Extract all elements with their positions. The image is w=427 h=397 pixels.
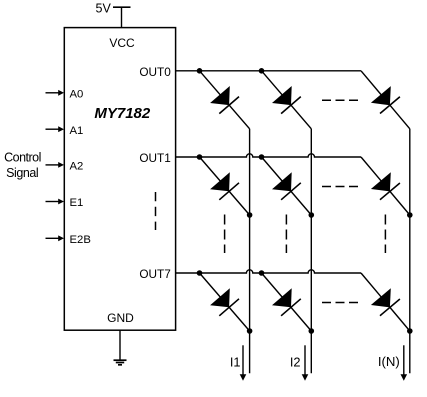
junction col N row OUT7 diode join xyxy=(407,328,413,334)
ellipsis dashes column 2 rows continuation xyxy=(285,215,287,254)
junction row OUT7 tap col 2 xyxy=(259,270,265,276)
svg-text:I(N): I(N) xyxy=(378,354,400,369)
svg-text:Control: Control xyxy=(4,150,41,164)
svg-text:OUT7: OUT7 xyxy=(139,267,170,281)
svg-text:GND: GND xyxy=(107,311,134,325)
svg-text:I1: I1 xyxy=(230,354,241,369)
wire column IN vertical xyxy=(409,129,411,373)
input pin arrow E2B xyxy=(46,235,65,241)
input pin arrow A1 xyxy=(46,126,65,132)
junction col 1 row OUT7 diode join xyxy=(247,328,253,334)
junction col 2 row OUT1 diode join xyxy=(309,212,315,218)
diode D01 (row OUT0, col 1) xyxy=(200,71,250,129)
wire 5V to VCC pin xyxy=(121,7,123,27)
svg-text:Signal: Signal xyxy=(6,166,38,180)
wire OUT7 row line xyxy=(176,270,361,273)
diode D0N (row OUT0, col N) xyxy=(361,71,410,129)
svg-text:E1: E1 xyxy=(70,197,84,209)
IC U1 MY7182 body xyxy=(64,28,175,331)
svg-text:A0: A0 xyxy=(70,89,84,101)
wire GND pin to ground xyxy=(119,330,121,360)
junction row OUT1 tap col 1 xyxy=(197,154,203,160)
current arrow I2 xyxy=(302,345,309,381)
wire column I1 vertical xyxy=(249,129,251,373)
ellipsis dashes row OUT0 columns continuation xyxy=(322,99,358,101)
current arrow I1 xyxy=(240,345,247,381)
svg-text:I2: I2 xyxy=(290,354,301,369)
input pin arrow A0 xyxy=(46,90,65,96)
svg-text:VCC: VCC xyxy=(109,36,135,50)
wire OUT1 row line xyxy=(176,154,361,157)
svg-text:A1: A1 xyxy=(70,125,84,137)
diode D72 (row OUT7, col 2) xyxy=(262,273,312,331)
svg-text:A2: A2 xyxy=(70,161,84,173)
wire OUT0 row line xyxy=(176,70,361,72)
junction row OUT0 tap col 1 xyxy=(197,68,203,74)
svg-text:OUT0: OUT0 xyxy=(139,65,171,79)
svg-text:E2B: E2B xyxy=(70,234,91,246)
ground symbol xyxy=(114,360,127,365)
junction row OUT0 tap col 2 xyxy=(259,68,265,74)
diode D12 (row OUT1, col 2) xyxy=(262,157,312,215)
diode D7N (row OUT7, col N) xyxy=(361,273,410,331)
junction col 2 row OUT7 diode join xyxy=(309,328,315,334)
svg-text:MY7182: MY7182 xyxy=(94,105,151,122)
junction col 1 row OUT1 diode join xyxy=(247,212,253,218)
input pin arrow E1 xyxy=(46,199,65,205)
current arrow I(N) xyxy=(401,345,408,381)
junction col N row OUT1 diode join xyxy=(407,212,413,218)
diode D71 (row OUT7, col 1) xyxy=(200,273,250,331)
svg-text:5V: 5V xyxy=(96,2,112,16)
diode D02 (row OUT0, col 2) xyxy=(262,71,312,129)
junction row OUT1 tap col 2 xyxy=(259,154,265,160)
ellipsis dashes OUT1..OUT7 xyxy=(155,192,157,230)
ellipsis dashes row OUT1 columns continuation xyxy=(322,186,358,188)
ellipsis dashes column 1 rows continuation xyxy=(224,215,226,254)
diode D1N (row OUT1, col N) xyxy=(361,157,410,215)
junction row OUT7 tap col 1 xyxy=(197,270,203,276)
diode D11 (row OUT1, col 1) xyxy=(200,157,250,215)
ellipsis dashes row OUT7 columns continuation xyxy=(322,302,358,304)
ellipsis dashes column N rows continuation xyxy=(384,215,386,254)
5V supply rail bar xyxy=(113,6,131,8)
svg-text:OUT1: OUT1 xyxy=(139,151,170,165)
input pin arrow A2 xyxy=(46,162,65,168)
wire column I2 vertical xyxy=(310,129,312,373)
